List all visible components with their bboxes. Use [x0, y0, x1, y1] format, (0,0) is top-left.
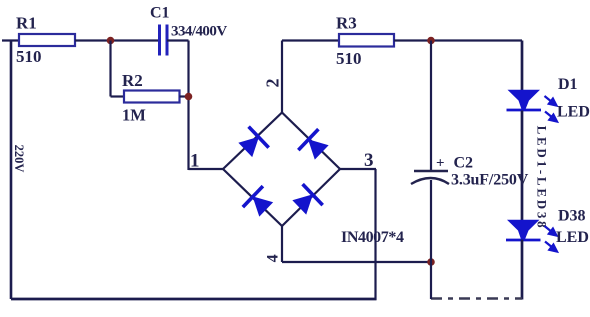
diode D-b (bridge, node3 to node2) [298, 129, 332, 163]
svg-text:D1: D1 [558, 76, 578, 93]
wire [75, 39, 160, 41]
resistor R3 [339, 34, 394, 47]
wire [187, 41, 189, 171]
svg-text:1: 1 [190, 151, 200, 172]
svg-text:R2: R2 [122, 71, 143, 90]
junction [185, 93, 193, 101]
svg-text:R1: R1 [16, 14, 37, 33]
LED D1 [507, 90, 542, 110]
wire [109, 41, 111, 97]
capacitor C1 [160, 25, 168, 56]
capacitor C2 [411, 171, 449, 184]
wire [374, 169, 376, 300]
wire [11, 298, 377, 301]
junction [107, 37, 115, 45]
resistor R1 [19, 34, 75, 46]
wire [282, 169, 340, 226]
wire [111, 95, 125, 97]
wire [282, 113, 340, 170]
wire [430, 180, 432, 299]
wire [281, 41, 283, 113]
svg-text:D38: D38 [558, 208, 586, 225]
diode D-d (bridge, node4 to node3) [289, 184, 323, 218]
wire [223, 113, 282, 170]
svg-text:510: 510 [336, 49, 362, 68]
wire [282, 261, 431, 263]
wire [10, 41, 13, 300]
wire [180, 95, 189, 97]
wire [394, 39, 522, 41]
wire (dashed) [431, 297, 522, 300]
wire [282, 39, 339, 41]
svg-text:510: 510 [16, 47, 42, 66]
LED D1 arrows [545, 96, 558, 122]
svg-text:1M: 1M [122, 106, 146, 125]
svg-text:C1: C1 [150, 5, 170, 22]
wire [189, 168, 224, 170]
svg-text:R3: R3 [336, 14, 357, 33]
svg-text:IN4007*4: IN4007*4 [341, 229, 404, 246]
wire [2, 39, 19, 41]
svg-text:3: 3 [364, 150, 374, 171]
wire [281, 226, 283, 262]
wire [340, 168, 376, 170]
diode D-a (bridge, node1 to node2) [235, 126, 269, 160]
LED D38 [506, 220, 541, 240]
svg-text:334/400V: 334/400V [171, 24, 227, 40]
wire [223, 169, 282, 226]
diode D-c (bridge, node4 to node1) [242, 186, 276, 220]
wire [521, 240, 524, 300]
svg-text:LED: LED [556, 229, 589, 246]
svg-text:LED: LED [557, 104, 590, 121]
wire [521, 41, 524, 92]
LED D38 arrows [545, 226, 558, 252]
wire [430, 41, 432, 171]
svg-text:LED1-LED38: LED1-LED38 [535, 126, 550, 231]
svg-text:+: + [436, 156, 445, 172]
svg-text:C2: C2 [454, 155, 474, 172]
wire [521, 111, 524, 221]
wire [167, 39, 189, 41]
svg-text:220V: 220V [12, 145, 26, 173]
svg-text:2: 2 [263, 79, 283, 88]
junction [427, 258, 435, 266]
svg-text:3.3uF/250V: 3.3uF/250V [451, 172, 529, 189]
resistor R2 [124, 91, 180, 103]
junction [427, 37, 435, 45]
svg-text:4: 4 [265, 254, 282, 262]
